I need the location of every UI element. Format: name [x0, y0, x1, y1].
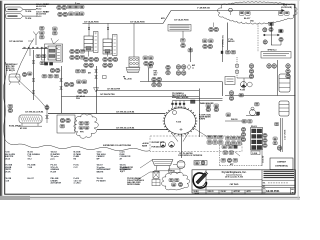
svg-text:P-012: P-012 [240, 90, 245, 92]
svg-text:1/2"-WS-05-12-IH-S4: 1/2"-WS-05-12-IH-S4 [116, 110, 135, 113]
svg-text:COMPANY: COMPANY [277, 161, 287, 164]
svg-text:AT-1030: AT-1030 [20, 127, 27, 130]
svg-text:WS-010: WS-010 [231, 119, 238, 121]
svg-text:Crystal Engineers, Inc.: Crystal Engineers, Inc. [222, 171, 247, 174]
svg-text:1/2"-IA-09-P200: 1/2"-IA-09-P200 [174, 19, 190, 22]
svg-text:FLOW: FLOW [51, 171, 57, 173]
svg-text:IPS WASTE: IPS WASTE [120, 168, 131, 171]
svg-text:1/2"-WS-05-12-IH-S4: 1/2"-WS-05-12-IH-S4 [25, 111, 44, 114]
svg-text:1/2"-IA-04-P200: 1/2"-IA-04-P200 [84, 20, 100, 23]
svg-text:SPRD BL-0: SPRD BL-0 [268, 50, 277, 52]
svg-text:PUMPS: PUMPS [199, 119, 206, 121]
svg-text:1/2"-IW-05-TRH: 1/2"-IW-05-TRH [107, 88, 121, 90]
svg-text:1 L/N: 1 L/N [5, 180, 10, 182]
svg-text:REV: REV [291, 189, 294, 191]
svg-text:1/2"-IA-04-P200: 1/2"-IA-04-P200 [130, 20, 146, 23]
svg-text:xx: xx [192, 67, 194, 69]
svg-text:XX REQTS: XX REQTS [6, 70, 16, 72]
svg-text:DWG BY: DWG BY [208, 191, 214, 193]
svg-text:pwts: pwts [51, 157, 55, 160]
svg-text:IW PUMP SKID: IW PUMP SKID [152, 142, 165, 144]
svg-text:72-014: 72-014 [25, 10, 32, 13]
svg-text:PS-13: PS-13 [36, 16, 41, 18]
svg-text:1"-IW-NW-001: 1"-IW-NW-001 [197, 8, 211, 10]
svg-text:1/2"-PL-04-P200: 1/2"-PL-04-P200 [179, 152, 193, 155]
svg-text:1 1/2"-IW: 1 1/2"-IW [263, 155, 265, 163]
svg-text:LR-OK: LR-OK [5, 171, 12, 173]
svg-text:NONE: NONE [195, 193, 199, 195]
svg-text:1 1/2"-IW-06: 1 1/2"-IW-06 [285, 130, 287, 140]
svg-text:SUPERVISED COLLECTION PAN: SUPERVISED COLLECTION PAN [103, 144, 132, 147]
svg-text:P-xxx: P-xxx [75, 3, 80, 5]
svg-text:WASH HOLDER: WASH HOLDER [200, 102, 214, 105]
svg-text:(OUTDOOR): (OUTDOOR) [281, 7, 292, 9]
svg-text:P200: P200 [76, 98, 80, 100]
svg-text:m L/Nm: m L/Nm [74, 183, 81, 185]
svg-text:PG WASH: PG WASH [97, 179, 107, 182]
svg-text:GE-IW-P001: GE-IW-P001 [266, 190, 280, 193]
svg-text:1/2"-WS-05-12-IH-S4: 1/2"-WS-05-12-IH-S4 [116, 126, 135, 129]
svg-text:NW-001: NW-001 [228, 41, 235, 43]
svg-text:1"-IW-NW-001: 1"-IW-NW-001 [223, 35, 225, 47]
svg-text:WS-010: WS-010 [251, 126, 257, 128]
svg-text:CAT P&ID: CAT P&ID [230, 183, 239, 186]
svg-text:PS-12: PS-12 [36, 8, 41, 10]
svg-text:FIL-2010: FIL-2010 [124, 79, 132, 81]
svg-text:AW: AW [88, 72, 91, 75]
svg-text:FILTER FUNNEL: FILTER FUNNEL [127, 184, 140, 186]
svg-text:T-010: T-010 [176, 122, 182, 124]
svg-text:1/4"-WS-PW-TRH: 1/4"-WS-PW-TRH [100, 93, 115, 96]
svg-text:WASTE: WASTE [97, 170, 104, 173]
svg-text:KO/AL DRUM: KO/AL DRUM [9, 125, 21, 128]
svg-text:ACTUATOR: ACTUATOR [51, 182, 62, 185]
svg-text:WASH: WASH [142, 144, 148, 147]
svg-text:72-014: 72-014 [25, 17, 32, 20]
svg-text:│: │ [95, 32, 96, 35]
svg-text:BL-017: BL-017 [28, 178, 34, 180]
svg-text:1 L/N: 1 L/N [28, 167, 33, 169]
svg-text:ST-2: ST-2 [28, 158, 32, 160]
svg-text:CONFIDENTIAL: CONFIDENTIAL [275, 165, 289, 168]
svg-text:1/2"-IA-02-P200: 1/2"-IA-02-P200 [9, 40, 23, 43]
svg-text:CHK BY: CHK BY [221, 191, 227, 193]
svg-text:MANUALLY ADDED: MANUALLY ADDED [172, 96, 189, 99]
